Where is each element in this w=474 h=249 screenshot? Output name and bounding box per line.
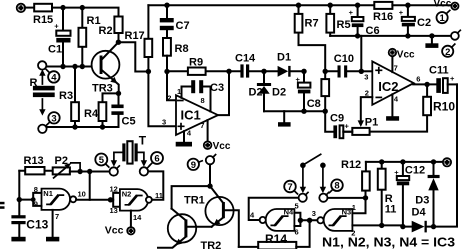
svg-text:R5: R5 — [337, 19, 351, 31]
wire supply rail to R2 corner — [52, 8, 119, 17]
wire N1 output to N2 input — [76, 199, 113, 201]
node N3 output branch — [307, 218, 312, 223]
ground IC2 pin4 — [386, 116, 399, 121]
svg-text:11: 11 — [385, 203, 397, 215]
label circled 6 — [150, 152, 164, 166]
node C1 top — [60, 5, 65, 10]
node P2 wiper — [77, 169, 82, 174]
wire bias rail (mid) — [330, 35, 451, 37]
resistor R5 — [326, 5, 350, 36]
node R11 top — [379, 159, 384, 164]
resistor R11 — [378, 162, 397, 226]
node R7 top — [296, 2, 301, 7]
svg-text:TR1: TR1 — [184, 194, 205, 206]
svg-text:2: 2 — [167, 93, 171, 102]
wire bottom rail left — [239, 246, 258, 248]
svg-text:R17: R17 — [125, 30, 145, 42]
svg-text:3: 3 — [364, 73, 368, 82]
svg-text:R4: R4 — [84, 108, 99, 120]
wire feedback to IC1 output — [218, 71, 229, 115]
op-amp IC1 — [176, 95, 218, 135]
label circled 8 — [330, 179, 343, 192]
pin 1 stub and label IC1 — [181, 87, 183, 98]
resistor R1 — [79, 8, 101, 67]
potentiometer P1 — [352, 116, 378, 135]
node D4 anode — [400, 224, 405, 229]
ground C13 — [11, 237, 25, 242]
wire P2 output line to terminal 5 — [70, 171, 110, 173]
resistor R3 — [59, 67, 79, 127]
node R6 top — [323, 69, 328, 74]
svg-text:R15: R15 — [33, 14, 53, 26]
ground (bias rail) — [425, 36, 438, 48]
Vcc symbol IC1 pin7 — [204, 141, 231, 152]
pin 14 stub N2 — [130, 211, 132, 228]
wire base line from terminal 4 — [46, 66, 99, 68]
wire TR1 base to R14 — [225, 210, 239, 247]
arrow switch to terminal 7 — [300, 168, 306, 193]
svg-text:C2: C2 — [417, 17, 431, 29]
svg-text:6: 6 — [416, 74, 420, 83]
node C14/D1/D2 junction — [261, 69, 266, 74]
label circled 7 — [284, 181, 297, 194]
svg-text:R7: R7 — [305, 18, 319, 30]
arrow switch to terminal 8 — [320, 168, 326, 193]
diode D4 — [412, 207, 427, 233]
wire terminal 9 down — [209, 164, 211, 186]
terminal 8 (open circle) — [319, 192, 328, 201]
svg-text:10: 10 — [78, 190, 86, 199]
terminal 3 (open circle) — [38, 125, 46, 133]
label circled 1 — [437, 10, 450, 24]
svg-text:R10: R10 — [433, 100, 455, 114]
svg-text:TR2: TR2 — [201, 240, 222, 249]
svg-text:7: 7 — [200, 121, 204, 130]
svg-text:R9: R9 — [189, 57, 203, 69]
resistor R2 — [99, 17, 123, 43]
resistor R16 — [373, 2, 393, 23]
svg-text:5: 5 — [295, 202, 299, 211]
wire emitter node to R4 — [103, 93, 119, 102]
wire terminal 8 to R12 node — [328, 197, 366, 199]
node C7 top — [164, 2, 169, 7]
node C8 top — [301, 69, 306, 74]
svg-text:R13: R13 — [24, 155, 44, 167]
node R17 bottom — [146, 69, 151, 74]
capacitor C9 — [325, 111, 352, 138]
Vcc symbol N2 pin14 — [105, 225, 135, 237]
svg-text:+: + — [296, 75, 301, 84]
input bracket N4 pins 5,6 — [294, 213, 300, 226]
svg-text:R14: R14 — [265, 232, 287, 246]
node R3 top — [72, 64, 77, 69]
node R12 bottom / pin1 / terminal 8 — [363, 195, 368, 200]
label circled 4 — [46, 69, 59, 83]
svg-text:3: 3 — [312, 209, 316, 218]
resistor R10 — [370, 84, 456, 131]
wire T left lead with arrow to terminal 5 — [111, 152, 123, 166]
op-amp IC2 — [372, 61, 413, 104]
ground IC1 pin4 — [176, 142, 192, 147]
node C2 bottom — [405, 33, 410, 38]
svg-text:5: 5 — [99, 155, 105, 166]
node N4 input bracket — [298, 218, 303, 223]
node R1 top — [80, 5, 85, 10]
diode D1 — [264, 52, 304, 77]
svg-text:C1: C1 — [48, 44, 62, 56]
input bracket N2 pins 12,13 — [113, 193, 120, 207]
resistor R9 — [167, 57, 229, 75]
node D4 cathode — [431, 224, 436, 229]
node R11 bottom — [379, 223, 384, 228]
pin 8 stub and label IC1 — [210, 87, 212, 112]
svg-text:C10: C10 — [334, 53, 354, 65]
svg-text:8: 8 — [334, 181, 339, 192]
pin 2 stub and wiper drop to P1 — [358, 97, 373, 127]
wire drop to N1 output — [89, 172, 91, 200]
terminal 7 (open circle) — [299, 192, 308, 201]
wire N4 output to terminal 7 — [249, 198, 299, 220]
node feedback — [226, 69, 231, 74]
pin 7 stub IC1 — [207, 120, 209, 141]
svg-text:14: 14 — [133, 213, 142, 222]
node C8 bottom — [301, 109, 306, 114]
node R5 top — [328, 2, 333, 7]
capacitor C11 — [429, 64, 457, 93]
svg-text:3: 3 — [51, 113, 56, 124]
wire N3 pin2 to bottom net — [352, 224, 381, 226]
sensor R (external, between terminals 4 and 3) — [30, 69, 55, 115]
resistor R6 (unlabeled) — [321, 71, 329, 111]
svg-text:6: 6 — [154, 154, 159, 165]
capacitor C7 — [160, 5, 190, 38]
capacitor C13 — [11, 200, 48, 237]
svg-text:C6: C6 — [366, 25, 380, 37]
wire rail to Vcc terminal — [392, 4, 451, 6]
svg-text:N1: N1 — [43, 189, 53, 198]
node TR3 collector — [116, 40, 121, 45]
svg-text:C3: C3 — [210, 82, 224, 94]
svg-text:8: 8 — [34, 185, 38, 194]
switch S (external) — [300, 154, 326, 168]
node C12 top — [400, 159, 405, 164]
svg-text:R3: R3 — [59, 90, 73, 102]
svg-text:9: 9 — [34, 199, 38, 208]
resistor R14 — [258, 232, 296, 249]
svg-text:+: + — [54, 22, 59, 31]
resistor R17 — [125, 5, 153, 71]
svg-text:D2: D2 — [249, 87, 263, 99]
svg-text:12: 12 — [110, 184, 118, 193]
capacitor C5 — [111, 93, 135, 127]
svg-text:D1: D1 — [277, 52, 291, 64]
terminal 4 (open circle) — [38, 61, 46, 69]
wire R13 left drop — [18, 171, 20, 200]
node collectors TR1/TR2 — [207, 183, 212, 188]
transistor TR3 — [92, 42, 120, 94]
capacitor C14 — [229, 53, 264, 78]
diode D3 — [415, 162, 439, 227]
resistor R7 — [295, 5, 326, 71]
transistor TR2 — [158, 209, 221, 249]
svg-text:Vcc: Vcc — [397, 50, 415, 61]
wire collector branch to TR2 — [172, 186, 210, 209]
node IC2 output — [424, 82, 429, 87]
resistor R15 — [33, 4, 53, 26]
node drop to N1 output — [87, 169, 92, 174]
wire pin2 drop — [167, 72, 176, 101]
svg-text:C12: C12 — [405, 164, 425, 176]
node R6 bottom — [323, 109, 328, 114]
svg-text:D3: D3 — [415, 194, 429, 206]
wire N2 output to terminal 6 — [148, 171, 163, 199]
gate N3 (Schmitt NAND, mirrored) — [317, 208, 352, 231]
resistor R8 — [163, 38, 189, 72]
pin 4 stub IC1 — [183, 131, 185, 142]
terminal + (supply input, top left) — [17, 4, 25, 12]
svg-text:C5: C5 — [122, 116, 136, 128]
diode D2 — [249, 71, 287, 111]
svg-text:7: 7 — [287, 182, 292, 193]
svg-text:R12: R12 — [341, 159, 361, 171]
svg-text:P2: P2 — [55, 155, 68, 167]
pin 6 output wire IC2 — [413, 83, 436, 85]
wire filtered rail (top) — [148, 4, 374, 6]
node C2 top — [405, 2, 410, 7]
svg-text:1: 1 — [177, 87, 181, 96]
ground (D2 line) — [278, 111, 291, 126]
svg-text:+: + — [399, 8, 404, 17]
svg-text:C7: C7 — [176, 20, 190, 32]
capacitor C12 — [394, 162, 425, 227]
node N2 input — [108, 197, 113, 202]
wire output top line — [366, 161, 442, 163]
node R8 bottom — [164, 69, 169, 74]
label circled 2 — [442, 44, 455, 58]
svg-text:C13: C13 — [26, 218, 48, 232]
svg-text:4: 4 — [51, 72, 57, 83]
gate N2 (Schmitt NAND) — [120, 189, 152, 211]
node C6 bottom — [355, 33, 360, 38]
wire T right lead with arrow to terminal 6 — [138, 152, 147, 166]
wire right edge vertical — [434, 84, 458, 226]
wire bottom net — [382, 225, 434, 226]
node N1 bracket — [31, 197, 36, 202]
svg-text:+: + — [394, 168, 399, 177]
wire pin3 drop from R17 node — [148, 72, 176, 127]
svg-text:C11: C11 — [429, 64, 449, 76]
wire C9 to P1 — [343, 131, 352, 133]
resistor R12 — [341, 159, 370, 198]
terminal 2 (open circle) — [451, 30, 460, 40]
svg-text:C8: C8 — [307, 98, 321, 110]
node IC2 pin3 — [359, 69, 364, 74]
node R3 bottom — [72, 124, 77, 129]
svg-text:8: 8 — [201, 96, 205, 105]
wire bottom sensor-return rail — [46, 126, 119, 128]
resistor R4 — [84, 102, 106, 127]
svg-text:1: 1 — [440, 13, 446, 24]
left edge crop marks — [0, 202, 5, 205]
svg-text:2: 2 — [445, 47, 450, 58]
pin 7 stub N1 — [52, 210, 54, 237]
gate N1 (Schmitt NAND) — [42, 189, 77, 210]
input bracket N1 pins 8,9 — [33, 193, 41, 206]
svg-text:+: + — [345, 121, 350, 130]
svg-text:P1: P1 — [365, 116, 378, 128]
label circled 9 — [188, 159, 203, 171]
wire D2 ground line — [264, 110, 325, 112]
svg-text:1: 1 — [352, 203, 356, 212]
wire P2 wiper loop — [71, 163, 80, 172]
svg-text:13: 13 — [110, 206, 118, 215]
svg-text:C9: C9 — [330, 112, 344, 124]
svg-text:D2: D2 — [272, 87, 286, 99]
svg-text:Vcc: Vcc — [213, 141, 231, 152]
terminal 6 (open circle) — [140, 166, 150, 176]
transistor TR1 — [184, 186, 234, 227]
svg-text:9: 9 — [191, 160, 196, 171]
svg-text:T: T — [139, 133, 147, 147]
node C1 bottom — [60, 64, 65, 69]
svg-text:3: 3 — [162, 118, 166, 127]
capacitor C10 — [325, 53, 361, 78]
svg-text:Vcc: Vcc — [434, 0, 452, 10]
svg-text:Vcc: Vcc — [105, 225, 124, 237]
svg-text:2: 2 — [365, 88, 369, 97]
resistor R13 — [19, 155, 52, 174]
node ground stub — [429, 33, 434, 38]
potentiometer P2 — [53, 155, 72, 178]
svg-text:6: 6 — [295, 228, 299, 237]
node D3 top — [431, 159, 436, 164]
wire bottom rail right — [296, 220, 309, 247]
wire bias drop to IC2 pin3 node — [358, 36, 362, 71]
node C6 top — [355, 2, 360, 7]
svg-text:R: R — [30, 77, 38, 89]
svg-text:IC1: IC1 — [181, 107, 201, 122]
wire supply rail left — [25, 7, 34, 9]
ground N1 pin7 — [46, 237, 59, 242]
capacitor C2 — [399, 5, 431, 36]
capacitor C3 — [182, 80, 225, 94]
wire TR2 base to TR1 emitter — [187, 226, 211, 228]
svg-text:N1, N2, N3, N4 = IC3: N1, N2, N3, N4 = IC3 — [322, 236, 455, 249]
pin 7 stub IC2 — [391, 56, 393, 72]
svg-text:IC2: IC2 — [378, 79, 398, 94]
svg-text:C14: C14 — [235, 53, 256, 65]
wire collector to R17 bottom branch — [118, 42, 148, 71]
terminal 9 (open circle) — [206, 155, 216, 165]
label circled 5 — [95, 154, 109, 168]
terminal 1 (plus circle) — [451, 3, 458, 10]
node N1 input — [17, 197, 22, 202]
gate N4 (Schmitt NAND, mirrored) — [260, 208, 295, 231]
wire N4 input to N3 output — [300, 219, 317, 221]
svg-text:D4: D4 — [412, 207, 427, 219]
svg-text:+: + — [450, 74, 455, 83]
wire N3 pin1 to R12 node — [352, 198, 365, 213]
pin 4 stub IC2 — [391, 94, 393, 116]
svg-text:N2: N2 — [122, 190, 132, 199]
terminal 5 (open circle) — [110, 166, 120, 176]
node TR3 emitter — [116, 91, 121, 96]
svg-text:7: 7 — [55, 212, 59, 221]
svg-text:R8: R8 — [175, 43, 189, 55]
terminal output + (plus circle) — [443, 158, 451, 166]
svg-text:11: 11 — [155, 191, 163, 200]
svg-text:R2: R2 — [99, 25, 113, 37]
svg-text:7: 7 — [394, 64, 398, 73]
wire pin3 stub IC2 — [361, 70, 372, 72]
svg-text:+: + — [349, 8, 354, 17]
svg-text:R16: R16 — [373, 11, 393, 23]
capacitor C1 — [48, 8, 71, 67]
capacitor C6 — [349, 5, 380, 37]
Vcc symbol IC2 pin7 — [389, 49, 415, 61]
label circled 3 — [46, 112, 59, 125]
capacitor C8 — [296, 71, 321, 111]
node R1 bottom — [80, 64, 85, 69]
piezo transducer T (external) — [122, 133, 146, 163]
wire N1 input — [19, 199, 33, 201]
node R4 bottom — [100, 124, 105, 129]
